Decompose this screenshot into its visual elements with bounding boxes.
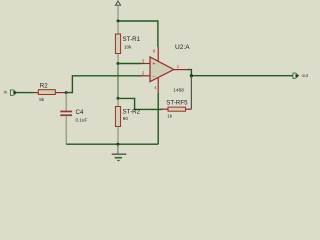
svg-text:−: − bbox=[152, 75, 155, 81]
resistor ST-RF5 bbox=[161, 100, 192, 119]
svg-text:out: out bbox=[302, 73, 309, 78]
svg-text:R2: R2 bbox=[40, 83, 48, 90]
wire pin 4 to ground rail bbox=[157, 93, 159, 144]
resistor ST-R1 bbox=[115, 21, 140, 64]
op-amp U2:A bbox=[142, 44, 191, 94]
wire junction up to pin 2 bbox=[66, 76, 141, 93]
output terminal bbox=[293, 73, 309, 78]
svg-text:in: in bbox=[4, 90, 8, 95]
node junction ground rail bbox=[116, 143, 119, 146]
input terminal bbox=[4, 90, 17, 96]
node junction V+ column top bbox=[117, 20, 120, 23]
node junction R2 / C4 / pin2 net bbox=[65, 91, 68, 94]
svg-text:C4: C4 bbox=[76, 109, 84, 116]
svg-text:1458: 1458 bbox=[173, 88, 184, 94]
svg-text:ST-R2: ST-R2 bbox=[123, 109, 141, 116]
node A junction (bias node) bbox=[117, 62, 120, 65]
svg-text:ST-RF5: ST-RF5 bbox=[166, 100, 188, 107]
resistor ST-R2 bbox=[115, 98, 140, 144]
svg-text:0.1uF: 0.1uF bbox=[76, 117, 88, 122]
ground rail wire bbox=[66, 143, 158, 145]
wire V+ rail to pin 8 bbox=[118, 21, 158, 47]
power symbol V+ bbox=[115, 1, 120, 21]
svg-text:+: + bbox=[152, 62, 155, 68]
wire node A to ST-RF5 left (positive feedback) bbox=[118, 98, 163, 109]
wire in to R2 bbox=[17, 92, 33, 94]
wire node A column down bbox=[117, 64, 119, 99]
node junction ST-R2 top bbox=[117, 97, 120, 100]
wire output down to ST-RF5 bbox=[190, 76, 192, 110]
svg-text:U2:A: U2:A bbox=[175, 44, 190, 51]
svg-text:90: 90 bbox=[123, 116, 129, 121]
capacitor C4 bbox=[60, 93, 87, 145]
svg-text:10k: 10k bbox=[124, 45, 132, 50]
svg-text:5k: 5k bbox=[39, 97, 45, 102]
wire node A to pin 3 bbox=[118, 63, 142, 65]
wire output to out terminal bbox=[188, 70, 293, 76]
ground bbox=[112, 144, 127, 160]
svg-text:1k: 1k bbox=[167, 113, 173, 118]
svg-text:ST-R1: ST-R1 bbox=[123, 36, 141, 43]
node junction output bbox=[190, 74, 193, 77]
resistor R2 bbox=[33, 83, 66, 102]
